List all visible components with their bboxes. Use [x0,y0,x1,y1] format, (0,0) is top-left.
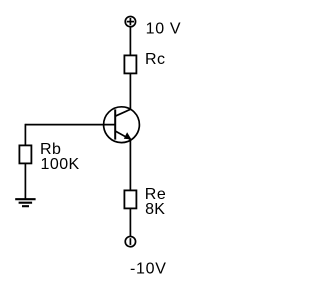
power terminal +10V [125,16,135,26]
svg-text:8K: 8K [145,201,165,218]
ground [15,199,35,206]
power terminal -10V [125,236,135,246]
resistor Rc [124,55,136,73]
wire terminal to Rc [129,27,131,56]
wire base [25,124,115,126]
wire Rb to ground [24,163,26,199]
resistor Rb [19,145,31,163]
resistor Re [124,190,136,208]
svg-text:10 V: 10 V [146,20,182,37]
svg-text:-10V: -10V [130,260,167,277]
svg-text:100K: 100K [41,156,80,173]
wire Rc to collector [129,73,131,109]
svg-text:Rc: Rc [145,51,166,68]
wire Re to bottom terminal [129,208,131,236]
wire left rail to Rb [24,124,26,146]
transistor Q1 [104,107,140,143]
wire emitter to Re [129,139,131,190]
